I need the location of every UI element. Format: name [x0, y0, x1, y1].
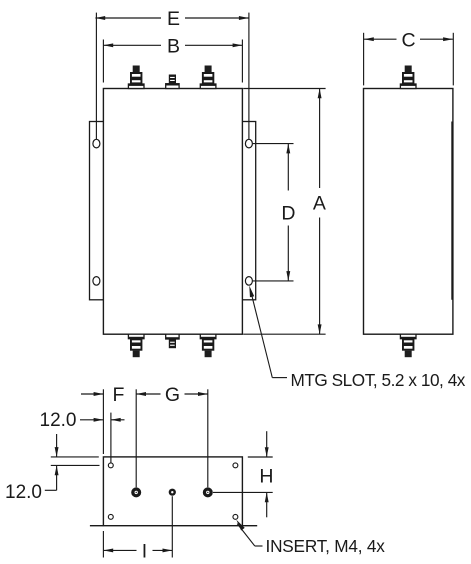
svg-text:A: A [313, 193, 326, 215]
svg-text:I: I [142, 540, 147, 562]
svg-text:12.0: 12.0 [40, 410, 77, 431]
svg-text:12.0: 12.0 [5, 482, 42, 503]
svg-text:E: E [167, 8, 180, 30]
svg-text:C: C [401, 29, 415, 51]
svg-text:MTG SLOT, 5.2 x 10, 4x: MTG SLOT, 5.2 x 10, 4x [291, 370, 466, 390]
svg-text:F: F [113, 384, 125, 406]
svg-text:H: H [259, 465, 273, 487]
svg-text:INSERT, M4, 4x: INSERT, M4, 4x [266, 536, 386, 556]
svg-text:G: G [165, 384, 180, 406]
svg-text:D: D [281, 202, 295, 224]
svg-text:B: B [167, 35, 180, 57]
